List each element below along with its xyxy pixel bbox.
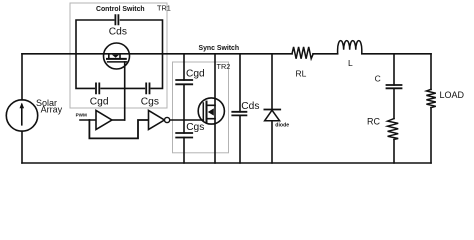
svg-text:C: C xyxy=(375,74,381,84)
svg-text:L: L xyxy=(348,58,353,68)
svg-text:Sync Switch: Sync Switch xyxy=(199,45,240,52)
svg-text:diode: diode xyxy=(275,123,289,129)
svg-text:Cgd: Cgd xyxy=(186,69,205,80)
svg-text:RL: RL xyxy=(296,68,307,78)
svg-text:Array: Array xyxy=(41,104,63,114)
svg-text:Cgs: Cgs xyxy=(186,122,204,133)
svg-text:Cds: Cds xyxy=(109,27,127,38)
svg-text:Cgd: Cgd xyxy=(90,96,109,107)
svg-text:PWM: PWM xyxy=(76,113,87,118)
svg-text:TR2: TR2 xyxy=(217,62,231,71)
svg-text:Cgs: Cgs xyxy=(141,96,159,107)
svg-text:TR1: TR1 xyxy=(157,4,171,13)
svg-text:LOAD: LOAD xyxy=(440,90,465,100)
svg-text:Cds: Cds xyxy=(241,101,259,112)
svg-text:Control Switch: Control Switch xyxy=(96,6,145,13)
svg-text:RC: RC xyxy=(367,117,380,127)
